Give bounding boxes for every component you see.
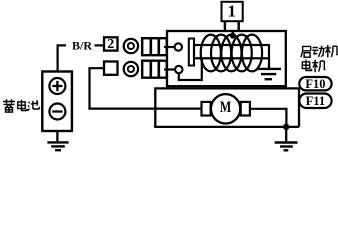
connector box 1: [222, 2, 243, 21]
label 启动机 电机 (starter motor) hand-drawn glyphs: [301, 45, 338, 72]
wire lower contact to coil end: [179, 58, 202, 80]
solenoid contact terminal (lower): [175, 66, 182, 73]
motor M armature circle: [211, 94, 240, 123]
starter motor housing: left edge: [154, 88, 156, 127]
motor brush (right): [241, 102, 250, 116]
pin 1 of connector 1: [224, 22, 226, 31]
svg-text:F10: F10: [305, 77, 325, 91]
ring terminal (upper): [124, 39, 138, 53]
connector box 2: [104, 37, 118, 50]
wire relay right edge down to motor top line: [285, 85, 287, 89]
multi-way connector (upper): [142, 38, 167, 55]
connector box (lower, unlabeled): [104, 62, 118, 75]
glyph 电 (of 电机): [302, 60, 311, 71]
glyph 池 (of 蓄电池): [28, 100, 40, 110]
glyph 机 (of 电机): [312, 60, 325, 73]
glyph 电 (of 蓄电池): [18, 100, 27, 111]
motor brush (left): [202, 102, 211, 116]
starter motor housing: bottom edge: [154, 126, 299, 128]
pin 2 of connector 1: [237, 22, 239, 31]
ground (battery): [56, 131, 58, 141]
wire right brush to ground junction: [250, 109, 287, 127]
battery plus sign: [52, 81, 62, 91]
fuse F10 oval: [299, 77, 331, 90]
glyph 蓄: [3, 99, 15, 112]
starter motor housing: right edge (drop to ground rail): [298, 88, 300, 127]
wire relay top to coil junction: [232, 31, 234, 36]
svg-text:F11: F11: [306, 94, 325, 108]
svg-text:B/R: B/R: [72, 38, 92, 52]
glyph 动: [312, 46, 325, 57]
glyph 机: [325, 45, 338, 58]
solenoid (starter relay) housing box: [167, 31, 286, 86]
ground (solenoid coil): [268, 58, 270, 68]
wire stub upper connector to solenoid contact: [164, 46, 175, 48]
svg-text:1: 1: [228, 2, 237, 21]
wire lower connector to motor brush: [90, 68, 202, 108]
ground (starter housing): [285, 127, 287, 141]
junction node (coil feed): [230, 33, 236, 39]
battery minus sign: [52, 110, 62, 112]
label 蓄电池 (battery) hand-drawn glyphs: [3, 99, 39, 112]
battery BT1 box: [42, 72, 72, 132]
wire B/R to connector 2: [95, 44, 105, 46]
wire battery + to B/R node: [58, 45, 66, 71]
ring terminal (lower): [124, 62, 138, 76]
starter motor housing: top edge (runs right to fuse F10): [154, 87, 300, 89]
glyph 启: [301, 46, 311, 57]
coil L1 (pull-in winding, 5 loops): [201, 35, 221, 72]
battery negative terminal circle: [49, 104, 65, 120]
svg-text:M: M: [220, 99, 231, 117]
battery positive terminal circle: [49, 78, 65, 94]
multi-way connector (lower): [142, 61, 167, 78]
solenoid core bar: [194, 45, 269, 58]
svg-text:2: 2: [107, 37, 114, 52]
junction node (motor housing to ground): [283, 124, 289, 130]
solenoid contact terminal (upper): [175, 43, 182, 50]
fuse F11 oval: [299, 94, 331, 109]
wire stub lower connector to solenoid contact: [164, 68, 175, 70]
solenoid plunger bar: [189, 39, 194, 66]
